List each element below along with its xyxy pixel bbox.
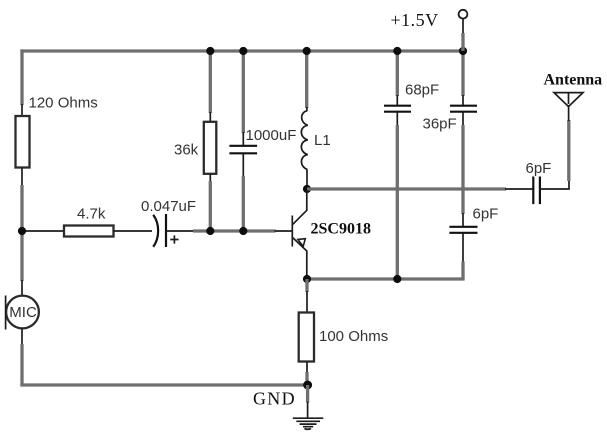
svg-text:Antenna: Antenna [544,72,603,89]
wire 36k top [209,51,212,113]
ground symbol [293,418,324,427]
wire lead 120 Ohms top [21,104,23,116]
resistor R 4.7k [64,226,114,237]
wire 1000uF top [242,51,245,133]
antenna symbol [554,93,583,107]
svg-text:36k: 36k [174,142,199,159]
transistor Q1 collector [292,190,307,225]
node base 36k [206,227,214,235]
capacitor C 6pF series plates [533,177,540,205]
wire lead base [275,230,293,232]
svg-text:68pF: 68pF [405,82,439,99]
microphone MIC side bar [5,296,7,330]
wire lead 36pF top [462,95,464,106]
wire antenna vertical [567,120,570,181]
node rail 68pF [393,47,401,55]
svg-text:GND: GND [253,389,296,409]
node bottom rail [303,381,312,390]
capacitor C 1000uF plates [229,146,257,154]
wire lead L1 top [306,107,308,111]
resistor R 100 Ohms [299,313,314,362]
wire lead 36k bottom [209,174,211,182]
node base 1000uF [239,227,247,235]
wire left vertical lower [20,344,23,385]
wire left vertical mid [20,185,23,281]
wire bottom rail [20,383,308,386]
svg-text:120 Ohms: 120 Ohms [29,95,98,112]
wire lead MIC bottom [21,328,23,345]
wire lead L1 bottom [306,170,308,190]
node rail 1000uF [239,47,247,55]
wire lead 6pF series left [505,188,533,190]
microphone MIC [6,296,39,329]
capacitor C 0.047uF plus sign [170,235,178,243]
wire lead 120 Ohms bottom [21,168,23,187]
wire lead 100 Ohms top [306,291,308,313]
wire lead MIC top [21,280,23,296]
wire top rail [20,49,463,52]
wire 68pF bottom [396,125,399,279]
capacitor C 6pF shunt plates [449,227,477,233]
transistor Q1 2SC9018 base bar [291,216,293,247]
wire lead 36k top [209,112,211,122]
svg-text:+1.5V: +1.5V [391,10,439,30]
wire base row left [22,230,64,232]
svg-text:L1: L1 [314,132,331,149]
svg-text:6pF: 6pF [473,206,499,223]
svg-text:36pF: 36pF [423,116,457,133]
wire lead 100 Ohms bottom [306,362,308,374]
transistor Q1 emitter [292,237,307,279]
wire ground stem thin [307,402,309,419]
wire 36k bottom [209,181,212,231]
wire lead 6pF shunt top [462,213,464,227]
resistor R 120 Ohms [16,116,30,168]
wire 36pF top [461,51,464,96]
wire lead 1000uF bottom [242,153,244,177]
capacitor C 0.047uF curved plate [153,215,158,247]
wire terminal lead [462,19,464,34]
capacitor C 68pF plates [384,106,411,112]
ground symbol bottom arc [305,427,311,430]
svg-text:4.7k: 4.7k [77,206,106,223]
wire lead 68pF top [396,95,398,106]
wire 1000uF bottom [242,176,245,231]
wire 100 Ohms to bottom rail [305,372,308,385]
node emitter [303,275,311,283]
wire lead C 0.047uF right [166,230,194,232]
node rail 36pF [459,47,467,55]
wire lead 1000uF top [242,132,244,146]
capacitor C 0.047uF straight plate [165,214,167,247]
wire terminal to rail [461,33,464,51]
svg-text:100 Ohms: 100 Ohms [319,328,388,345]
wire 68pF top [396,51,399,96]
node base-left junction [18,227,26,235]
wire lead 36pF bottom [462,112,464,126]
wire 6pF shunt to emitter row [461,262,464,280]
node rail 36k [206,47,214,55]
wire lead 68pF bottom [396,112,398,126]
node emitter 68pF [393,275,401,283]
node rail L1 [303,47,311,55]
wire lead 6pF shunt bottom [462,233,464,263]
wire emitter down [305,279,308,292]
svg-text:6pF: 6pF [526,160,552,177]
wire left vertical upper [20,49,23,105]
wire ground stem [306,385,309,403]
wire lead 4.7k to C 0.047uF [114,230,153,232]
resistor R 36k [204,122,217,174]
wire base row mid [193,229,276,232]
wire collector row to antenna [307,187,506,190]
transistor Q1 emitter arrow [298,239,306,247]
capacitor C 36pF plates [450,106,477,112]
wire emitter row [307,277,465,280]
wire L1 top [305,51,308,108]
wire lead 6pF series right [540,180,569,189]
svg-text:0.047uF: 0.047uF [141,198,196,215]
wire 36pF bottom [461,125,464,214]
inductor L1 [301,111,307,170]
svg-text:1000uF: 1000uF [246,127,297,144]
svg-text:MIC: MIC [9,304,37,321]
terminal +1.5V circle [459,10,468,19]
wire lead antenna [568,105,570,121]
node L1 bottom [303,185,311,193]
svg-text:2SC9018: 2SC9018 [311,221,371,238]
